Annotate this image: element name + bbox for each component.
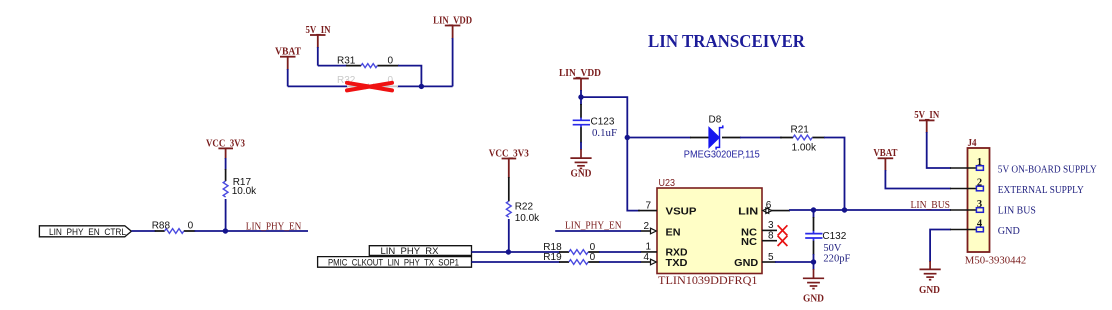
wire R18 to RXD pin <box>599 251 641 253</box>
svg-text:0: 0 <box>188 221 194 232</box>
ground below C132 <box>803 269 824 289</box>
svg-text:LIN_PHY_RX: LIN_PHY_RX <box>381 246 440 257</box>
svg-text:TXD: TXD <box>666 257 688 269</box>
node junction LIN_PHY_EN <box>223 228 228 233</box>
resistor R31 <box>337 56 399 68</box>
IC U23 TLIN1039DDFRQ1 body <box>657 188 762 274</box>
no-connect X pin 3 <box>778 225 788 235</box>
pin 2 of J4 <box>950 177 983 191</box>
svg-text:0.1uF: 0.1uF <box>592 128 617 139</box>
pin 4 of J4 <box>950 218 983 232</box>
svg-text:R19: R19 <box>543 252 562 263</box>
svg-text:1.00k: 1.00k <box>792 142 817 153</box>
svg-text:VBAT: VBAT <box>275 46 302 58</box>
svg-text:3: 3 <box>977 199 982 210</box>
wire R88 to net stub <box>195 230 309 232</box>
svg-text:0: 0 <box>388 56 394 67</box>
svg-text:2: 2 <box>977 177 982 188</box>
svg-text:LIN_PHY_EN_CTRL: LIN_PHY_EN_CTRL <box>49 227 126 238</box>
svg-text:10.0k: 10.0k <box>515 213 540 224</box>
net port PMIC_CLKOUT_LIN_PHY_TX_SOP1 <box>318 257 472 269</box>
pin 2 stub EN with input arrow <box>640 221 656 234</box>
wire VBAT to connector pin 2 <box>885 170 951 189</box>
wire LIN_VDD stem down to bottom wire <box>452 38 454 86</box>
svg-text:PMEG3020EP,115: PMEG3020EP,115 <box>684 149 760 160</box>
svg-text:4: 4 <box>977 218 983 229</box>
net port LIN_PHY_EN_CTRL <box>39 226 131 238</box>
wire port to R88 <box>131 230 155 232</box>
svg-text:2: 2 <box>643 221 649 232</box>
wire VBAT stem <box>287 69 289 86</box>
resistor R32 (not populated, ghost) <box>337 75 398 89</box>
svg-text:GND: GND <box>998 226 1020 237</box>
wire 5V_IN stem <box>317 47 319 66</box>
wire R31 to corner <box>398 66 421 87</box>
node junction R31/R32/LIN_VDD <box>419 84 424 89</box>
resistor R18 <box>543 242 600 254</box>
pin 8 stub NC <box>762 231 777 242</box>
svg-text:LIN_VDD: LIN_VDD <box>433 14 472 26</box>
resistor R19 <box>543 252 600 264</box>
wire D8 branch to diode <box>627 137 691 139</box>
power symbol 5V_IN (top-left) <box>310 35 326 48</box>
resistor R17 <box>223 169 257 197</box>
capacitor C132 <box>805 210 850 265</box>
svg-text:5V_IN: 5V_IN <box>306 24 331 36</box>
wire down to ground <box>813 262 815 270</box>
pin 5 stub GND <box>762 252 776 263</box>
wire VCC_3V3 to R17 <box>225 158 227 170</box>
wire GND pin to C132 bottom <box>775 261 814 263</box>
power symbol VBAT (top-left) <box>280 57 296 70</box>
wire 5V_IN to R31 <box>318 65 347 67</box>
svg-text:VCC_3V3: VCC_3V3 <box>206 137 245 149</box>
wire LIN_VDD to junction <box>580 90 582 97</box>
wire R22 down to RX line <box>508 219 510 252</box>
diode D8 (schottky PMEG3020EP,115) <box>684 115 760 161</box>
wire R19 to TXD pin <box>599 261 641 263</box>
svg-text:EN: EN <box>666 226 681 238</box>
svg-text:M50-3930442: M50-3930442 <box>965 254 1027 266</box>
svg-text:LIN_VDD: LIN_VDD <box>559 67 601 79</box>
svg-text:VBAT: VBAT <box>873 147 898 159</box>
svg-text:PMIC_CLKOUT_LIN_PHY_TX_SOP1: PMIC_CLKOUT_LIN_PHY_TX_SOP1 <box>328 257 459 268</box>
svg-text:LIN_PHY_EN: LIN_PHY_EN <box>565 220 622 232</box>
power symbol LIN_VDD (top) <box>445 26 461 40</box>
node junction D8 branch <box>625 135 630 140</box>
svg-text:0: 0 <box>590 252 596 263</box>
wire TX box to R19 <box>472 261 561 263</box>
svg-text:GND: GND <box>571 169 592 180</box>
pin 1 of J4 <box>950 157 983 171</box>
svg-text:5V_IN: 5V_IN <box>914 109 939 121</box>
svg-text:U23: U23 <box>659 178 676 189</box>
power symbol LIN_VDD (above C123) <box>573 79 589 92</box>
wire RX box to R18 <box>472 251 561 253</box>
svg-text:LIN TRANSCEIVER: LIN TRANSCEIVER <box>648 31 806 51</box>
svg-text:R22: R22 <box>515 202 534 213</box>
svg-text:10.0k: 10.0k <box>232 186 257 197</box>
wire LIN pin to connector pin 3 <box>789 209 951 211</box>
svg-text:R21: R21 <box>791 125 810 136</box>
svg-text:5: 5 <box>768 252 774 263</box>
resistor R22 <box>506 201 540 224</box>
power symbol VCC_3V3 (above R17) <box>218 148 233 159</box>
wire junction to VSUP rail <box>581 97 640 211</box>
svg-text:5V ON-BOARD SUPPLY: 5V ON-BOARD SUPPLY <box>998 165 1097 176</box>
svg-text:7: 7 <box>645 200 651 211</box>
node junction C132 top <box>811 207 816 212</box>
svg-text:D8: D8 <box>709 115 722 126</box>
wire connector pin 4 to ground <box>930 230 951 263</box>
svg-text:NC: NC <box>741 236 757 248</box>
svg-text:C123: C123 <box>591 117 615 128</box>
svg-text:LIN_PHY_EN: LIN_PHY_EN <box>246 221 302 233</box>
pin 4 stub TXD with input arrow <box>640 252 656 265</box>
svg-text:VSUP: VSUP <box>666 205 697 217</box>
wire LIN_PHY_EN to EN pin <box>555 230 641 232</box>
svg-text:R31: R31 <box>337 56 356 67</box>
resistor R88 <box>152 221 196 234</box>
svg-text:VCC_3V3: VCC_3V3 <box>489 148 529 160</box>
svg-text:6: 6 <box>766 200 772 211</box>
resistor R21 <box>780 125 825 154</box>
wire diode to R21 <box>740 137 782 139</box>
node junction C132 bottom <box>811 259 816 264</box>
svg-text:R88: R88 <box>152 221 171 232</box>
node junction R22/RX <box>506 249 511 254</box>
svg-text:3: 3 <box>768 220 774 231</box>
svg-text:4: 4 <box>643 252 649 263</box>
svg-text:GND: GND <box>919 285 940 296</box>
ground below connector pin 4 <box>920 261 941 280</box>
no-populate red X over R32 <box>347 83 392 91</box>
ground below C123 <box>570 149 591 168</box>
svg-text:LIN BUS: LIN BUS <box>998 206 1036 217</box>
wire VBAT to LIN_VDD (bottom horizontal) <box>288 85 453 87</box>
power symbol 5V_IN (right) <box>919 120 935 133</box>
svg-text:1: 1 <box>977 157 982 168</box>
svg-text:GND: GND <box>734 257 758 269</box>
pin 3 stub NC <box>762 220 777 231</box>
capacitor C123 <box>573 97 617 150</box>
svg-text:LIN_BUS: LIN_BUS <box>911 199 951 211</box>
connector J4 body <box>968 148 990 252</box>
pin 7 stub VSUP <box>638 200 657 211</box>
svg-text:8: 8 <box>768 231 774 242</box>
svg-text:J4: J4 <box>968 137 977 149</box>
wire 5V_IN to connector pin 1 <box>927 132 951 168</box>
power symbol VCC_3V3 (above R22) <box>502 159 517 179</box>
wire R17 to LIN_PHY_EN node <box>225 199 227 231</box>
node junction C123/VSUP branch <box>578 94 583 99</box>
pin 1 stub RXD <box>640 242 657 253</box>
svg-text:EXTERNAL SUPPLY: EXTERNAL SUPPLY <box>998 185 1084 196</box>
wire R21 down to LIN bus <box>824 138 845 211</box>
wire VCC_3V3 to R22 <box>508 177 510 201</box>
pin 3 of J4 <box>950 199 983 213</box>
svg-text:GND: GND <box>803 294 824 305</box>
pin 6 stub LIN with bidir arrow <box>763 200 790 213</box>
svg-text:50V: 50V <box>823 243 841 254</box>
net port LIN_PHY_RX <box>369 246 471 257</box>
svg-text:220pF: 220pF <box>823 254 850 265</box>
svg-text:C132: C132 <box>822 231 846 242</box>
no-connect X pin 8 <box>778 236 788 246</box>
power symbol VBAT (right) <box>878 158 894 171</box>
node junction R21/LIN <box>842 207 847 212</box>
svg-text:LIN: LIN <box>738 205 758 217</box>
svg-text:TLIN1039DDFRQ1: TLIN1039DDFRQ1 <box>658 275 758 287</box>
